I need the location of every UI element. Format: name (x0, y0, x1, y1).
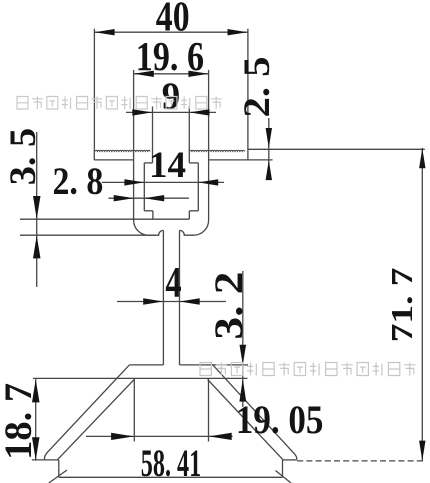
cavity bottom step left (144, 210, 153, 212)
serrated top surface left (95, 150, 150, 151)
watermark row 2 (gray company text) (200, 363, 416, 376)
foot left side edge (58, 460, 60, 477)
wing left edge (also ext line of 40) (93, 149, 95, 160)
dim line 2.8 (108, 197, 188, 199)
svg-text:2. 8: 2. 8 (53, 160, 104, 203)
ext line 19.05 right (208, 378, 210, 441)
cavity notch right wall (188, 211, 190, 219)
arrowhead 40 left (95, 29, 115, 35)
arrowhead 3.5 bottom (33, 235, 41, 258)
svg-text:14: 14 (149, 145, 186, 186)
foot top plate line + extensions (33, 377, 248, 379)
dim line 18.7 (35, 379, 37, 461)
dim line 3.2 (242, 271, 244, 407)
foot flange top surface right + tip arc (213, 365, 297, 460)
dashed extension to 71.7 dim (297, 460, 425, 462)
svg-text:18. 7: 18. 7 (0, 383, 40, 460)
cavity bottom step right (189, 210, 198, 212)
svg-text:19. 05: 19. 05 (236, 397, 324, 442)
cavity left wall (143, 163, 145, 211)
boss shoulder left (129, 364, 163, 366)
cavity notch left wall (152, 211, 154, 219)
oblique tick right base corner (276, 471, 292, 483)
arrowhead 18.7 bottom (32, 437, 40, 460)
watermark row 1 (gray company text) (17, 97, 222, 110)
slot-to-cavity step right (189, 162, 198, 164)
foot lip left + ext for 18.7 (32, 459, 59, 461)
ext line 19.05 left (133, 378, 135, 441)
ext line head bottom to left (20, 234, 155, 236)
svg-text:2. 5: 2. 5 (237, 57, 278, 118)
dim line 19.6 (134, 73, 209, 75)
foot lip right (283, 459, 298, 461)
oblique tick left base corner (49, 470, 67, 483)
arrowhead 14 right (198, 179, 218, 185)
head outer wall left + bottom arc (134, 150, 164, 236)
foot flange underside right (208, 380, 283, 460)
arrowhead 71.7 top (419, 148, 425, 168)
boss shoulder right + ext for 3.2 (180, 364, 249, 366)
ext line head top right (2.5 / 71.7) (248, 148, 425, 150)
foot base line (58.41 dim line) (59, 476, 283, 478)
arrowhead 2.8 right (144, 195, 164, 201)
slot left wall (152, 150, 154, 163)
arrowhead 2.8 left (114, 195, 134, 201)
foot right side edge (282, 460, 284, 477)
dim line 71.7 (421, 148, 423, 461)
foot flange underside left (58, 380, 135, 460)
arrowhead 18.7 top (32, 379, 40, 402)
arrowhead 4 left (143, 298, 163, 304)
dim line 40 (94, 31, 247, 33)
svg-text:3. 2: 3. 2 (206, 272, 251, 340)
arrowhead 9 left (132, 109, 152, 115)
svg-text:4: 4 (165, 260, 181, 307)
slot right wall (188, 150, 190, 163)
wing bottom right + ext for 2.5 (209, 159, 273, 161)
ext line notch bottom to left (20, 218, 153, 220)
arrowhead 40 right (228, 29, 248, 35)
svg-text:3. 5: 3. 5 (3, 128, 44, 185)
ext line 40 left (93, 29, 95, 149)
arrowhead 14 left (124, 179, 144, 185)
svg-text:58. 41: 58. 41 (141, 442, 201, 483)
web left wall (162, 230, 164, 365)
arrowhead 3.2 bottom (239, 379, 246, 402)
ext line 19.6 right (208, 70, 210, 150)
arrowhead 19.6 right (188, 71, 208, 77)
dim line 9 (126, 111, 216, 113)
svg-text:71. 7: 71. 7 (384, 268, 419, 343)
arrowhead 2.5 top (266, 128, 272, 148)
foot flange top surface left + tip arc (44, 365, 129, 460)
arrowhead 19.05 left (111, 433, 134, 440)
arrowhead 2.5 bottom (266, 160, 272, 180)
dim line 14 (102, 181, 224, 183)
web right wall (179, 230, 181, 365)
arrowhead 3.5 top (33, 196, 41, 219)
slot-to-cavity step left (144, 162, 152, 164)
wing bottom left (94, 159, 133, 161)
arrowhead 19.6 left (134, 71, 154, 77)
ext line 9 left (152, 107, 154, 151)
dim line 4 (117, 301, 226, 303)
arrowhead 4 right (180, 298, 200, 304)
dim line 19.05 (86, 435, 233, 437)
arrowhead 9 right (190, 109, 210, 115)
dim line 2.5 (268, 118, 270, 178)
head outer wall right + bottom arc (180, 150, 209, 236)
ext line 9 right (188, 107, 190, 151)
ext line 40 right (247, 29, 249, 160)
arrowhead 19.05 right (209, 433, 232, 440)
serrated top surface right (190, 150, 245, 151)
ext line 19.6 left (133, 70, 135, 150)
arrowhead 71.7 bottom (419, 441, 425, 461)
cavity right wall (197, 163, 199, 211)
svg-text:19. 6: 19. 6 (136, 33, 204, 79)
arrowhead 3.2 top (240, 345, 247, 365)
cavity notch bottom (153, 218, 189, 220)
dim line 3.5 (36, 132, 38, 287)
